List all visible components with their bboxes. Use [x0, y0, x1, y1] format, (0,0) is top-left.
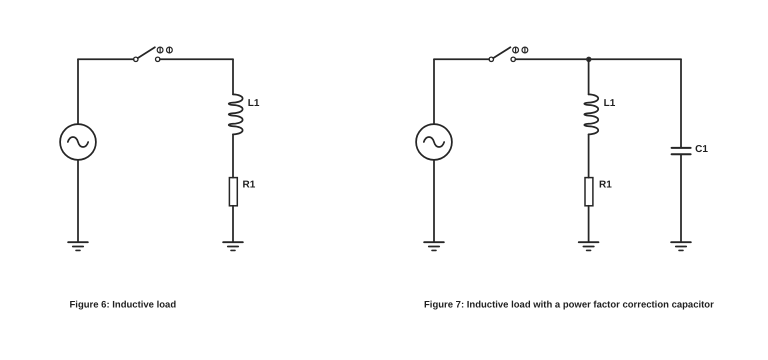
- wire left branch upper vertical: [433, 59, 435, 124]
- wire top horizontal (switch to capacitor branch): [515, 58, 681, 60]
- svg-text:R1: R1: [243, 180, 256, 191]
- wire top-left horizontal (source to switch): [78, 58, 134, 60]
- AC source V1: [60, 124, 96, 160]
- wire top-left horizontal (source to switch): [434, 58, 489, 60]
- wire top-right horizontal (switch to inductor branch): [160, 58, 233, 60]
- switch SW2 indicator circle 2: [522, 47, 528, 53]
- switch SW2 contact left: [489, 57, 493, 61]
- switch SW2 blade: [493, 47, 510, 58]
- inductor L1 (figure 7): [584, 94, 598, 134]
- svg-text:L1: L1: [248, 98, 260, 109]
- wire between inductor and resistor: [588, 134, 590, 177]
- ground (left branch): [68, 242, 88, 250]
- wire resistor to ground: [588, 206, 590, 242]
- ground (capacitor branch): [671, 242, 691, 250]
- junction node dot: [586, 57, 591, 62]
- wire capacitor to ground: [680, 155, 682, 241]
- ground (left branch figure 7): [424, 242, 444, 250]
- svg-text:R1: R1: [599, 180, 612, 191]
- switch SW2 indicator circle 1: [513, 47, 519, 53]
- wire resistor to ground: [232, 206, 234, 242]
- switch SW1 blade: [138, 47, 155, 58]
- AC source V2: [416, 124, 452, 160]
- switch SW1 contact right: [156, 57, 160, 61]
- resistor R1: [229, 178, 237, 206]
- wire right branch upper vertical: [232, 59, 234, 94]
- svg-text:L1: L1: [604, 98, 616, 109]
- capacitor C1: [672, 148, 691, 154]
- wire left branch upper vertical: [77, 59, 79, 124]
- svg-text:C1: C1: [695, 144, 708, 155]
- inductor L1: [229, 94, 243, 134]
- wire source to ground: [433, 160, 435, 242]
- ground (middle branch): [579, 242, 599, 250]
- wire source to ground: [77, 160, 79, 242]
- svg-text:Figure 7: Inductive load with: Figure 7: Inductive load with a power fa…: [424, 300, 714, 311]
- switch SW2 contact right: [511, 57, 515, 61]
- ground (right branch): [223, 242, 243, 250]
- wire middle branch upper vertical: [588, 59, 590, 94]
- switch SW1 contact left: [134, 57, 138, 61]
- svg-text:Figure 6: Inductive load: Figure 6: Inductive load: [70, 300, 177, 311]
- switch SW1 indicator circle 2: [167, 47, 173, 53]
- switch SW1 indicator circle 1: [157, 47, 163, 53]
- resistor R1 (figure 7): [585, 178, 593, 206]
- wire capacitor branch upper vertical: [680, 59, 682, 147]
- wire between inductor and resistor: [232, 134, 234, 177]
